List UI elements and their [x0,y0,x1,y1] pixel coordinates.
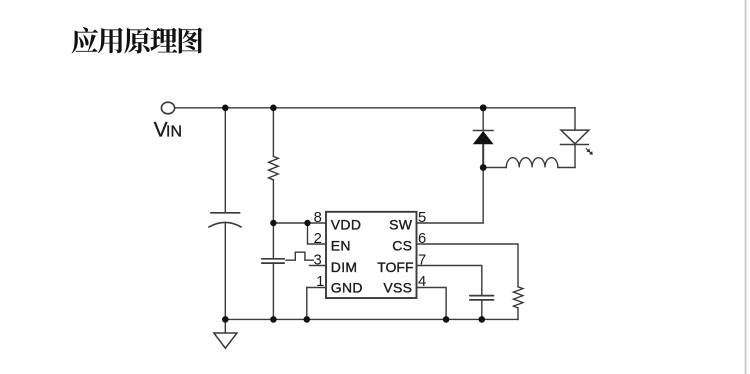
svg-text:5: 5 [418,210,426,226]
svg-text:VDD: VDD [331,216,361,232]
svg-text:GND: GND [331,279,363,295]
svg-text:8: 8 [314,210,322,226]
svg-text:IN: IN [166,124,182,141]
svg-text:4: 4 [418,274,426,290]
svg-text:1: 1 [316,274,324,290]
svg-text:EN: EN [331,237,351,253]
svg-text:7: 7 [418,253,426,269]
svg-text:VSS: VSS [383,279,412,295]
svg-text:3: 3 [313,253,321,269]
svg-text:SW: SW [389,216,413,232]
svg-text:CS: CS [392,237,412,253]
svg-text:DIM: DIM [331,259,358,275]
svg-text:2: 2 [314,231,322,247]
svg-text:TOFF: TOFF [377,259,413,275]
svg-text:6: 6 [418,231,426,247]
